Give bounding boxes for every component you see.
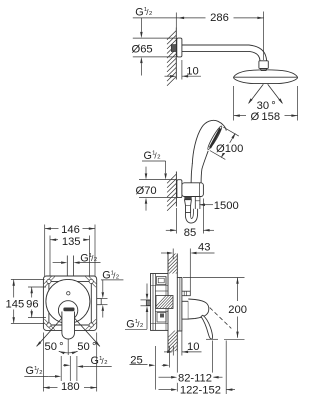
side port stub — [97, 297, 102, 299]
dimension 25 extension lines — [154, 346, 156, 390]
far extension line 122-152 — [225, 341, 227, 395]
holder inner line — [199, 183, 201, 197]
dimension 200 line — [237, 278, 239, 302]
dimension 85 extension line left (wall) — [175, 208, 177, 234]
svg-text:2: 2 — [39, 370, 42, 376]
leader arrow to bottom port (right) — [83, 366, 89, 368]
dimension 135 line — [50, 239, 58, 241]
dimension Oe100 extension line top — [223, 127, 239, 136]
svg-text:180: 180 — [61, 381, 80, 393]
dimension Oe70 bottom arrow — [145, 204, 147, 211]
dimension 96 line — [31, 287, 33, 298]
handle cap circle — [58, 301, 77, 320]
G 1/2 underline (rear inlet) — [125, 328, 147, 330]
dimension Oe158 arrows — [234, 114, 240, 117]
corner screw bottom-left — [47, 323, 51, 327]
dimension 82-112 line — [159, 376, 172, 378]
dimension 82-112 text — [177, 373, 214, 383]
mounting plate lines — [152, 274, 154, 331]
upper connection block — [157, 277, 167, 285]
dimension 145 extension lines — [11, 279, 45, 281]
bottom port extension lines — [60, 356, 62, 381]
dimension Oe65 top extension line — [133, 37, 177, 39]
label underline / leader to 286 dim — [133, 17, 206, 19]
dimension 10 extension lines (side view) — [172, 346, 174, 356]
G 1/2 underline (bottom outlet left) — [24, 375, 48, 377]
lower connection block — [157, 313, 166, 323]
corner chamfer hatching top-left — [44, 276, 52, 284]
handle base (side view) — [182, 301, 188, 319]
wall back line (side view) — [167, 254, 169, 274]
dimension Oe158 extension line right — [297, 86, 299, 121]
dimension 286 extension line (wall) — [175, 13, 177, 28]
wall face line (hand shower) — [175, 172, 177, 207]
svg-text:G: G — [91, 355, 99, 367]
rear inlet stub (side view) — [146, 300, 150, 305]
dimension 25 underline leader — [130, 364, 148, 366]
dimension 286 arrows — [178, 17, 184, 20]
hand shower inlet below holder — [195, 197, 200, 210]
svg-text:50 °: 50 ° — [45, 341, 64, 353]
hose length label 1500 leader — [200, 204, 214, 206]
svg-text:200: 200 — [228, 304, 247, 316]
wall hatching (top shower) — [167, 31, 176, 40]
rough-in box outer frame — [43, 276, 96, 330]
dimension 10 line (side view) — [164, 351, 167, 353]
shower arm horizontal tube — [182, 45, 267, 61]
G 1/2 underline (supply pipe) — [79, 262, 101, 264]
svg-text:G: G — [126, 318, 134, 330]
dimension 286 line right part — [234, 17, 264, 19]
rough-in body (side view) — [151, 274, 169, 331]
side port dim arrows — [102, 280, 104, 292]
dimension Oe100 arrows — [231, 133, 235, 139]
dimension 135 extension lines — [49, 236, 51, 277]
bottom port middle arrow — [63, 364, 64, 366]
svg-text:145: 145 — [6, 299, 25, 311]
hand shower handle left edge — [191, 164, 192, 184]
svg-text:2: 2 — [157, 155, 160, 161]
shower head rim line — [234, 76, 298, 78]
dimension 43 extension lines — [172, 249, 174, 260]
wall hatching upper (side view) — [167, 251, 179, 297]
dimension Oe65 top arrow — [140, 18, 142, 32]
G 1/2 leader arrow down (hand shower) — [165, 161, 167, 173]
side port extension lines — [101, 297, 107, 299]
escutcheon circle — [46, 279, 90, 323]
shower arm wall flange — [177, 38, 182, 57]
svg-text:1500: 1500 — [214, 200, 239, 212]
lever centre line — [67, 339, 69, 355]
escutcheon plate (side view) — [177, 278, 182, 332]
dimension 180 line — [43, 387, 57, 389]
rough-in box inner frame — [49, 281, 91, 325]
wall face extension line down — [176, 352, 178, 392]
dimension 43 line — [161, 252, 167, 254]
dimension 146 extension lines — [44, 225, 46, 277]
wall union flange — [177, 180, 182, 198]
corner chamfer hatching bottom-left — [44, 323, 52, 331]
wall hatching (hand shower) — [167, 174, 176, 183]
dimension texts 145 96 — [5, 298, 40, 308]
svg-text:96: 96 — [26, 299, 38, 311]
wall front line (side view) — [176, 254, 178, 278]
svg-text:43: 43 — [198, 241, 210, 253]
dimension 122-152 text — [179, 385, 222, 395]
svg-text:10: 10 — [187, 341, 199, 353]
dimension 10 line (wall to flange) — [165, 75, 171, 77]
escutcheon screw hole — [67, 292, 70, 295]
lever swing dashed line — [210, 308, 232, 329]
hand shower handle right edge — [201, 151, 208, 183]
svg-text:Ø65: Ø65 — [132, 43, 153, 55]
dimension 122-152 line — [159, 389, 172, 391]
svg-text:82-112: 82-112 — [178, 372, 212, 384]
handle dome (side view) — [188, 299, 209, 319]
spray angle arrow right — [278, 98, 283, 104]
dimension Oe70 bottom extension line — [139, 197, 176, 199]
svg-text:2: 2 — [94, 257, 97, 263]
svg-text:Ø 158: Ø 158 — [250, 111, 280, 123]
box internal lines (side view) — [151, 285, 169, 287]
corner screw bottom-right — [89, 323, 93, 327]
dimension Oe70 top arrow — [145, 167, 147, 174]
leader arrow to bottom port (left) — [48, 375, 55, 377]
hand shower head outline — [192, 120, 226, 164]
svg-text:2: 2 — [140, 323, 143, 329]
top stop stub (side view) — [182, 291, 190, 296]
wall hatching lower (side view) — [167, 327, 179, 373]
hose nut on wall outlet — [185, 197, 192, 200]
cartridge section (hatched) — [156, 296, 173, 309]
svg-text:85: 85 — [184, 227, 196, 239]
dimension Oe100 extension line bottom — [210, 151, 226, 160]
dimension 85 text — [182, 226, 199, 237]
svg-text:Ø70: Ø70 — [136, 185, 157, 197]
dimension 286 extension line (arm end) — [263, 12, 265, 61]
50 degree swing arrow right — [95, 341, 100, 346]
svg-text:G: G — [26, 365, 34, 377]
spray angle arrow left — [248, 98, 253, 104]
hose cone on wall outlet — [185, 200, 192, 213]
dimension 146 line — [45, 228, 59, 230]
dimension 85 extension line right (holder) — [202, 199, 204, 234]
dimension Oe158 extension line left — [233, 86, 235, 121]
svg-text:135: 135 — [62, 236, 81, 248]
svg-text:10: 10 — [186, 66, 198, 78]
dimension Oe65 bottom extension line — [133, 56, 177, 58]
overhead shower head — [234, 70, 298, 84]
dimension 96 extension lines — [28, 286, 46, 288]
svg-text:122-152: 122-152 — [180, 385, 221, 397]
G 1/2 underline (side port) — [101, 279, 123, 281]
dimension 25 arrows — [149, 364, 155, 367]
small dark detail — [160, 314, 164, 318]
mixer lever (front view) — [62, 312, 75, 340]
handle end extension line — [211, 341, 213, 382]
arm ball-joint nut — [259, 61, 268, 69]
G 1/2 underline (bottom outlet right) — [89, 366, 111, 368]
dimension 10 extension (flange front) — [181, 60, 183, 80]
svg-text:2: 2 — [104, 360, 107, 366]
dimension 200 extension line bottom — [206, 338, 218, 340]
spray angle line left — [249, 84, 263, 103]
dimension Oe65 bottom arrow — [140, 63, 142, 75]
dimension 145 line — [13, 280, 15, 298]
supply pipe dim arrows — [53, 262, 62, 264]
dimension 180 extension lines — [42, 333, 44, 392]
50 degree swing line right — [74, 318, 99, 346]
dimension 200 extension line top — [183, 277, 245, 279]
lever fixing bar — [63, 308, 74, 312]
dimension Oe158 line — [234, 115, 246, 117]
wall face line (top shower) — [175, 28, 177, 80]
rear inlet leader and arrows — [146, 312, 148, 330]
mixer lever (side view) — [201, 315, 213, 339]
rear inlet extension lines — [141, 299, 151, 301]
holder body — [182, 183, 204, 197]
svg-text:2: 2 — [116, 274, 119, 280]
G 1/2 underline (hand shower) — [142, 160, 166, 162]
svg-text:2: 2 — [149, 11, 152, 17]
hand shower spray face — [206, 125, 223, 150]
wall supply pipe stub (top shower) — [171, 45, 176, 52]
dimension Oe100 text — [216, 143, 245, 153]
shower hose loop — [185, 209, 197, 223]
svg-text:146: 146 — [61, 224, 80, 236]
svg-text:Ø100: Ø100 — [216, 143, 243, 155]
svg-text:G: G — [135, 6, 143, 18]
dimension Oe70 top extension line — [139, 179, 176, 181]
dimension Oe100 line — [222, 134, 235, 157]
corner chamfer hatching bottom-right — [89, 323, 97, 331]
50 degree swing line left — [37, 318, 62, 346]
corner screw top-left — [47, 279, 51, 283]
corner screw top-right — [89, 279, 93, 283]
svg-text:G: G — [144, 150, 152, 162]
corner chamfer hatching top-right — [89, 276, 97, 284]
spray face dark center line — [210, 128, 220, 147]
svg-text:286: 286 — [210, 12, 229, 24]
svg-text:50 °: 50 ° — [77, 341, 96, 353]
dimension 85 line and arrows — [166, 229, 177, 231]
50 degree swing arrow left — [36, 341, 41, 346]
50 degree arc with arrows — [59, 351, 78, 353]
spray angle line right — [268, 84, 282, 103]
supply pipe up from box — [66, 256, 68, 277]
